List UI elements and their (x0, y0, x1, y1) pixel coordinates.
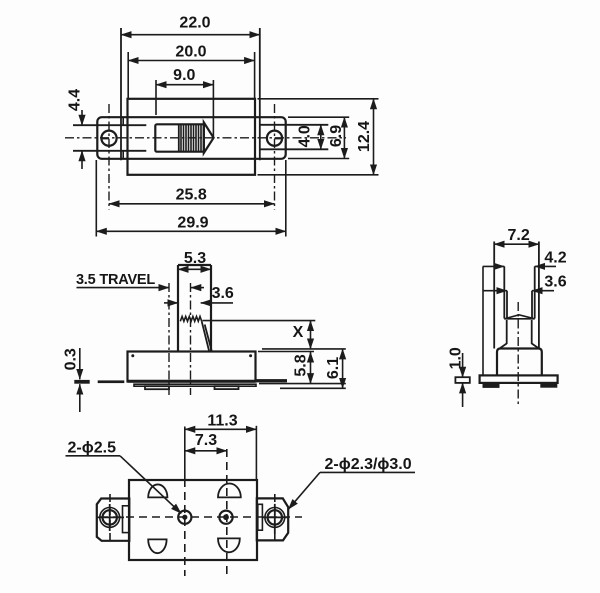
svg-text:3.6: 3.6 (544, 274, 566, 291)
bottom plate strip (134, 384, 256, 386)
knob serration zigzag (180, 316, 201, 321)
right ear hole crosshair h (262, 516, 288, 518)
dim 11.3 line (185, 428, 257, 430)
top view right ear hole (267, 131, 282, 146)
bottom view body (129, 480, 257, 560)
dim 9.0 line (156, 84, 213, 86)
dim 0.3 lower arrow (79, 384, 81, 412)
dim 29.9 line (96, 230, 285, 232)
top view left ear hole slot (101, 138, 109, 140)
end view detent tent (504, 315, 534, 319)
window top-right (218, 484, 241, 498)
knob shaft left edge (177, 265, 179, 352)
callout 2-phi2.5 leader (120, 456, 181, 514)
svg-text:5.3: 5.3 (184, 250, 206, 267)
dim 5.8 line (310, 352, 312, 384)
dim 1.0 upper arrow (462, 353, 464, 377)
end view shaft outer right (538, 242, 540, 349)
left center hole vertical centerline (184, 479, 186, 576)
end view left connector extension (482, 266, 484, 375)
20.0 extension right (254, 52, 256, 99)
svg-text:12.4: 12.4 (356, 121, 373, 152)
svg-text:20.0: 20.0 (175, 44, 206, 61)
end view lower shaft left (506, 320, 508, 344)
dim 7.3 line (185, 450, 227, 452)
callout 2-phi2.3 leader (288, 472, 320, 509)
end view shaft mid left (503, 266, 505, 318)
end view base plate (480, 375, 558, 383)
left foot (145, 386, 169, 389)
dim 3.6 right arrow (201, 302, 233, 304)
bottom view left ear (97, 499, 130, 541)
dim 22.0 line (121, 34, 260, 36)
right center hole (219, 511, 232, 524)
right hole vertical centerline (274, 494, 276, 545)
side view body (128, 352, 256, 382)
9.0 extension left (155, 80, 157, 115)
left hole vertical centerline (109, 494, 111, 545)
side view left corner rivet (131, 354, 134, 357)
top view base right edge + 22.0 extension (259, 28, 261, 160)
travel centerline left (168, 283, 170, 395)
svg-text:1.0: 1.0 (448, 347, 465, 369)
svg-text:25.8: 25.8 (176, 186, 207, 203)
svg-text:2-ϕ2.5: 2-ϕ2.5 (68, 440, 117, 457)
slot upper line left segment (73, 124, 146, 126)
top view right ear hole slot (274, 138, 282, 140)
knob hatch divider (178, 124, 180, 151)
end view shaft outer left (493, 242, 495, 349)
knob body (155, 124, 204, 151)
callout 2-phi2.3 underline (320, 471, 415, 473)
terminal cross-section (455, 377, 469, 383)
11.3 extension left (184, 427, 186, 480)
end view tent base (504, 318, 534, 320)
end view right foot (540, 383, 557, 388)
svg-text:4.0: 4.0 (297, 125, 314, 147)
svg-text:6.1: 6.1 (325, 357, 342, 379)
dim 12.4 line (373, 99, 375, 175)
end view centerline (517, 302, 519, 406)
window top-left (148, 484, 167, 497)
left center hole dot (182, 515, 187, 520)
svg-text:5.8: 5.8 (293, 354, 310, 376)
end view lower shaft right (531, 320, 533, 344)
6.9 extension upper (288, 116, 349, 118)
end view shaft mid right (534, 266, 536, 318)
dim 3.6 left arrow (164, 302, 178, 304)
dim 5.3 line (178, 268, 211, 270)
dim 6.1 line (342, 349, 344, 388)
dim X line (310, 321, 312, 349)
right terminal (256, 379, 288, 382)
top view horizontal centerline (65, 137, 346, 139)
body-bottom extension (259, 383, 346, 385)
dim 4.0 line (320, 125, 322, 150)
top view base left edge + 22.0 extension (120, 28, 122, 160)
end view left foot (483, 383, 500, 388)
3.5 travel right arrow (191, 287, 204, 289)
body-top extension (258, 351, 314, 353)
top view cover body (128, 99, 256, 175)
side view right corner rivet (249, 354, 252, 357)
left terminal (74, 380, 89, 384)
12.4 extension lower (258, 174, 379, 176)
6.9 extension lower (288, 158, 349, 160)
svg-text:11.3: 11.3 (207, 412, 237, 429)
bottom view horizontal centerline (100, 516, 302, 518)
svg-text:4.4: 4.4 (67, 89, 84, 111)
travel centerline right (190, 283, 192, 395)
right ear hole crosshair v (274, 504, 276, 534)
29.9 extension right (285, 160, 287, 237)
svg-text:22.0: 22.0 (179, 15, 210, 32)
20.0 extension left (127, 52, 129, 99)
slot lower line left segment (73, 150, 146, 152)
svg-text:0.3: 0.3 (63, 348, 80, 370)
left center hole (178, 511, 191, 524)
knob pointed tip (204, 122, 214, 153)
svg-text:4.2: 4.2 (544, 249, 566, 266)
3.5 travel leader (77, 287, 170, 289)
left ear hole (bottom) inner (103, 510, 117, 524)
9.0 extension right (212, 80, 214, 137)
callout 2-phi2.5 underline (66, 455, 121, 457)
slot upper line right segment (260, 124, 329, 126)
right foot (215, 386, 239, 389)
knob tip slant 2 (205, 325, 212, 352)
right center hole dot (223, 514, 229, 520)
dim 7.2 line (494, 243, 539, 245)
dim 3.6 left arrow (end view) (484, 290, 508, 292)
slot lower line right segment (260, 148, 329, 150)
bottom view right ear (257, 498, 288, 540)
dim 3.6 right arrow (end view) (532, 290, 554, 292)
end view left flare (500, 344, 507, 349)
dim 20.0 line (128, 60, 254, 62)
dim 0.3 upper arrow (79, 348, 81, 379)
left bracket wing (98, 380, 125, 383)
window bottom-left (148, 539, 166, 553)
boss-top extension (262, 348, 346, 350)
dim 4.4 lower arrow (81, 151, 83, 169)
29.9 extension left (95, 160, 97, 237)
svg-text:7.2: 7.2 (507, 227, 529, 244)
left ear inner tab (123, 506, 130, 533)
end view slot inner left (506, 291, 508, 319)
svg-text:9.0: 9.0 (173, 67, 195, 84)
dim 1.0 lower arrow (462, 383, 464, 407)
svg-text:7.3: 7.3 (195, 432, 217, 449)
top view bracket plate with ears (97, 117, 285, 159)
11.3 extension right (255, 426, 257, 479)
top view left ear hole (101, 131, 116, 146)
right center hole vertical centerline (226, 449, 228, 576)
right ear hole (bottom) inner (268, 510, 282, 524)
svg-text:X: X (293, 324, 304, 341)
knob hatch lines (181, 124, 201, 151)
dim 4.2 left arrow (483, 265, 505, 267)
knob shaft right edge (210, 265, 212, 352)
dim 6.9 line (343, 117, 345, 158)
end view boss (497, 349, 542, 376)
right ear inner tab (258, 504, 263, 530)
dim 4.4 upper arrow (81, 110, 83, 125)
foot-bottom extension (280, 387, 346, 389)
left ear hole (bottom) outer (100, 508, 120, 528)
right hole centerline vertical (274, 104, 276, 210)
knob tip slant 1 (202, 321, 210, 351)
dim 25.8 line (109, 203, 275, 205)
end view slot inner right (531, 291, 533, 319)
left ear inner boundary stubs (122, 117, 124, 125)
side view body bottom thick edge (128, 380, 256, 383)
end view right flare (532, 344, 539, 349)
svg-text:29.9: 29.9 (177, 214, 208, 231)
left hole centerline vertical (108, 104, 110, 210)
svg-text:6.9: 6.9 (328, 125, 345, 147)
svg-text:3.5 TRAVEL: 3.5 TRAVEL (76, 272, 155, 288)
window bottom-right (218, 538, 240, 552)
right ear hole (bottom) outer (265, 508, 285, 528)
dim 4.2 right arrow (535, 265, 556, 267)
knob shaft top edge (178, 264, 211, 266)
X extension upper (203, 320, 316, 322)
svg-text:2-ϕ2.3/ϕ3.0: 2-ϕ2.3/ϕ3.0 (325, 456, 412, 473)
svg-text:3.6: 3.6 (212, 285, 234, 302)
left ear hole crosshair v (109, 504, 111, 531)
12.4 extension upper (258, 98, 379, 100)
left ear hole crosshair h (97, 516, 124, 518)
